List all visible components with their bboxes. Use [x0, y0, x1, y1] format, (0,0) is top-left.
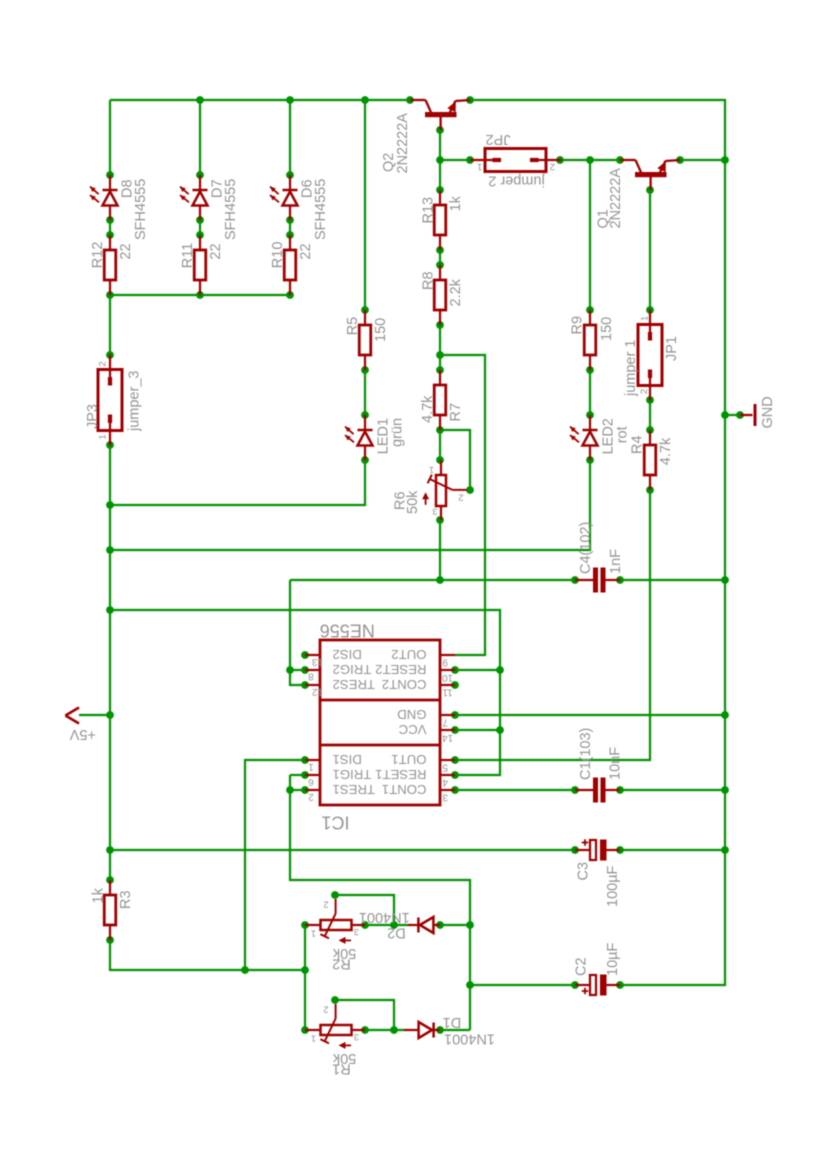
junction dot (560,160) — [556, 156, 564, 164]
IC1 designator — [321, 812, 349, 832]
svg-text:1nF: 1nF — [608, 549, 624, 574]
junction dot (650,400) — [646, 396, 654, 404]
junction dot (440,1030) — [436, 1026, 444, 1034]
label LED1 value gruen — [389, 418, 405, 447]
jumper JP2 — [470, 149, 561, 172]
junction dot (620,580) — [616, 576, 624, 584]
label R3 name — [118, 890, 134, 909]
label R5 name — [345, 317, 361, 336]
transistor Q1 — [620, 160, 680, 190]
wire C1 right to rail — [620, 789, 725, 791]
wire x290 riser to IC pins 8 12 — [290, 580, 305, 685]
junction dot (440,460) — [436, 456, 444, 464]
junction dot (440,370) — [436, 366, 444, 374]
wire +5V supply stub — [79, 714, 110, 716]
svg-text:10nF: 10nF — [608, 747, 624, 780]
label R1 value 50k — [332, 1050, 356, 1066]
svg-text:CONT2: CONT2 — [382, 677, 427, 692]
wire D8 LED to R12 — [109, 220, 111, 235]
label D2 name — [387, 924, 406, 940]
label C2 name — [574, 957, 590, 976]
junction dot (200,175) — [196, 171, 204, 179]
svg-text:CONT1: CONT1 — [382, 782, 427, 797]
junction dot (110,175) — [106, 171, 114, 179]
junction dot (394,925) — [390, 921, 398, 929]
wire row 610 VCC line — [110, 610, 500, 775]
wire pin 6 link — [290, 774, 305, 776]
junction dot (290,670) — [286, 666, 294, 674]
label Q2 value 2N2222A — [395, 113, 411, 174]
junction dot (590,310) — [586, 306, 594, 314]
wire pin 1 to x245 riser — [245, 760, 305, 970]
wire LED1 bottom to left rail — [110, 460, 365, 505]
wire Q1 base upper — [649, 190, 651, 310]
label R13 value 1k — [448, 195, 464, 211]
svg-text:11: 11 — [442, 686, 453, 697]
wire JP2 row right — [560, 159, 620, 161]
svg-text:1: 1 — [429, 464, 434, 475]
junction dot (245,970) — [241, 966, 249, 974]
label R11 value 22 — [208, 243, 224, 259]
label JP1 value jumper 1 — [623, 340, 639, 397]
svg-text:2.2k: 2.2k — [448, 278, 464, 306]
svg-text:1: 1 — [311, 1032, 316, 1043]
svg-text:2: 2 — [98, 361, 109, 366]
wire left rail upper — [109, 100, 111, 175]
junction dot (590,415) — [586, 411, 594, 419]
svg-text:1k: 1k — [91, 887, 107, 903]
wire R8 to node — [439, 325, 441, 355]
wire row 850 C3 left — [110, 849, 575, 851]
svg-text:12: 12 — [312, 686, 324, 697]
label D8 name — [120, 179, 136, 198]
svg-text:5: 5 — [442, 761, 448, 772]
junction dot (440,925) — [436, 921, 444, 929]
svg-text:DIS1: DIS1 — [333, 752, 362, 767]
junction dot (620,790) — [616, 786, 624, 794]
label R11 name — [180, 243, 196, 269]
wire x290 riser pins 6 2 down — [290, 775, 470, 1030]
junction dot (110,295) — [106, 291, 114, 299]
label GND — [760, 396, 776, 428]
svg-text:R11: R11 — [180, 243, 196, 269]
svg-text:3: 3 — [432, 505, 437, 516]
resistor R4 — [644, 430, 656, 490]
svg-text:1: 1 — [98, 434, 109, 439]
junction dot (200,100) — [196, 96, 204, 104]
IC IC1 NE556 body — [305, 640, 455, 805]
junction dot (440,190) — [436, 186, 444, 194]
svg-text:1N4001: 1N4001 — [359, 909, 410, 925]
junction dot (305,760) — [301, 756, 309, 764]
wire pin 7 GND row — [455, 714, 725, 716]
label R4 name — [630, 435, 646, 454]
label R2 value 50k — [332, 945, 356, 961]
label R9 value 150 — [599, 317, 615, 341]
svg-text:2: 2 — [458, 491, 463, 502]
label LED2 name — [601, 418, 617, 454]
label R2 name — [332, 956, 351, 972]
label R2 pin 3 — [354, 926, 359, 937]
wire node to R7 — [439, 355, 441, 370]
svg-text:GND: GND — [397, 707, 426, 722]
label R6 name — [393, 491, 409, 510]
svg-text:OUT2: OUT2 — [391, 647, 426, 662]
junction dot (110,355) — [106, 351, 114, 359]
wire R5 to LED1 — [364, 370, 366, 415]
trimmer R1 — [305, 1004, 365, 1049]
svg-text:NE556: NE556 — [320, 620, 375, 640]
transistor Q2 — [410, 100, 470, 130]
svg-text:R1: R1 — [332, 1061, 351, 1077]
wire pin 14 link — [455, 729, 500, 731]
junction dot (440,520) — [436, 516, 444, 524]
wire row 580 C4 right — [620, 579, 725, 581]
label R8 name — [421, 271, 437, 290]
junction dot (470,100) — [466, 96, 474, 104]
wire Q2 base down — [439, 130, 441, 190]
IC1 pin numbers — [308, 656, 453, 803]
wire GND stub — [725, 414, 740, 416]
svg-text:1N4001: 1N4001 — [444, 1030, 495, 1046]
label JP3 pin 2 — [98, 361, 109, 366]
junction dot (725,580) — [721, 576, 729, 584]
svg-text:OUT1: OUT1 — [391, 752, 426, 767]
junction dot (470,925) — [466, 921, 474, 929]
svg-text:RESET2: RESET2 — [375, 662, 426, 677]
LED LED2 — [570, 415, 598, 460]
svg-text:22: 22 — [298, 243, 314, 259]
label D8 value SFH4555 — [133, 179, 149, 240]
supply +5V arrow — [65, 708, 79, 724]
label R10 name — [270, 242, 286, 269]
label R6 pin 1 — [429, 464, 434, 475]
svg-text:SFH4555: SFH4555 — [223, 179, 239, 240]
wire Q1 emitter to rail — [680, 159, 725, 161]
junction dot (575,790) — [571, 786, 579, 794]
label D1 name — [443, 1014, 462, 1030]
svg-text:C1(103): C1(103) — [578, 728, 594, 780]
svg-text:22: 22 — [118, 243, 134, 259]
junction dot (500,670) — [496, 666, 504, 674]
junction dot (305,790) — [301, 786, 309, 794]
svg-text:C2: C2 — [574, 957, 590, 976]
junction dot (455,685) — [451, 681, 459, 689]
svg-text:1: 1 — [640, 316, 651, 321]
svg-text:VCC: VCC — [398, 722, 426, 737]
junction dot (440,250) — [436, 246, 444, 254]
label C1 value 10nF — [608, 747, 624, 780]
label D7 name — [210, 179, 226, 198]
junction dot (455,775) — [451, 771, 459, 779]
wire left rail JP3 to bottom — [109, 445, 111, 880]
resistor R12 — [104, 235, 116, 295]
junction dot (725,415) — [721, 411, 729, 419]
svg-text:7: 7 — [442, 716, 448, 727]
wire right GND rail — [620, 160, 725, 985]
svg-text:TRIG1: TRIG1 — [333, 767, 372, 782]
label +5V — [69, 726, 96, 742]
svg-text:R9: R9 — [570, 316, 586, 335]
svg-text:6: 6 — [308, 776, 314, 787]
label C3 value 100uF — [605, 865, 621, 907]
svg-text:R2: R2 — [332, 956, 351, 972]
wire R9 to LED2 — [589, 370, 591, 415]
wire R5 branch top — [364, 100, 366, 310]
svg-text:22: 22 — [208, 243, 224, 259]
junction dot (110,550) — [106, 546, 114, 554]
svg-text:1: 1 — [477, 161, 482, 172]
svg-text:jumper_3: jumper_3 — [127, 371, 143, 432]
junction dot (440,160) — [436, 156, 444, 164]
diode D2 — [408, 917, 440, 933]
label C4 name — [578, 522, 594, 574]
label LED1 name — [376, 418, 392, 454]
wire JP2 row left — [440, 159, 470, 161]
wire D7 branch top — [199, 100, 201, 175]
svg-text:1: 1 — [308, 761, 314, 772]
junction dot (290,175) — [286, 171, 294, 179]
junction dot (575,580) — [571, 576, 579, 584]
IC1 right pin names — [375, 647, 426, 797]
label R12 value 22 — [118, 243, 134, 259]
label R1 pin 1 — [311, 1032, 316, 1043]
junction dot (394,1030) — [390, 1026, 398, 1034]
wire D1 to x470 riser — [440, 1029, 470, 1031]
wire R1 pin3 to D1 — [365, 1029, 404, 1031]
junction dot (740,415) — [736, 411, 744, 419]
junction dot (365,370) — [361, 366, 369, 374]
junction dot (305,655) — [301, 651, 309, 659]
svg-text:R4: R4 — [630, 435, 646, 454]
resistor R11 — [194, 235, 206, 295]
junction dot (110,715) — [106, 711, 114, 719]
svg-text:GND: GND — [760, 396, 776, 428]
junction dot (590,370) — [586, 366, 594, 374]
label R10 value 22 — [298, 243, 314, 259]
label R1 name — [332, 1061, 351, 1077]
junction dot (725,790) — [721, 786, 729, 794]
svg-text:rot: rot — [615, 426, 631, 443]
wire D6 branch top — [289, 100, 291, 175]
label JP1 pin 2 — [639, 389, 650, 394]
label LED2 value rot — [615, 426, 631, 443]
wire left rail below R3 — [110, 940, 305, 970]
junction dot (200,235) — [196, 231, 204, 239]
label Q1 value 2N2222A — [608, 168, 624, 229]
junction dot (440,130) — [436, 126, 444, 134]
label JP1 name — [664, 336, 680, 361]
label R8 value 2.2k — [448, 278, 464, 306]
junction dot (725,850) — [721, 846, 729, 854]
svg-text:SFH4555: SFH4555 — [313, 179, 329, 240]
label R1 pin 3 — [354, 1031, 359, 1042]
LED D7 — [180, 175, 208, 220]
svg-text:2N2222A: 2N2222A — [395, 113, 411, 174]
junction dot (650,430) — [646, 426, 654, 434]
wire D6 LED to R10 — [289, 220, 291, 235]
wire R13 to R8 — [439, 250, 441, 265]
junction dot (365,100) — [361, 96, 369, 104]
LED D6 — [270, 175, 298, 220]
svg-text:2: 2 — [639, 389, 650, 394]
junction dot (650,310) — [646, 306, 654, 314]
junction dot (110,445) — [106, 441, 114, 449]
junction dot (470,985) — [466, 981, 474, 989]
wire pin 5 to Q1 base — [455, 490, 650, 760]
junction dot (305,925) — [301, 921, 309, 929]
svg-text:1k: 1k — [448, 195, 464, 211]
resistor R5 — [359, 310, 371, 370]
label R1 pin 2 — [323, 1003, 328, 1014]
label R7 name — [448, 403, 464, 422]
junction dot (440,265) — [436, 261, 444, 269]
label JP1 pin 1 — [640, 316, 651, 321]
wire R2 pin1 to R1 pin1 — [304, 925, 306, 1030]
junction dot (575,985) — [571, 981, 579, 989]
wire D7 LED to R11 — [199, 220, 201, 235]
junction dot (440,325) — [436, 321, 444, 329]
label Q2 name — [381, 153, 397, 172]
junction dot (335,895) — [331, 891, 339, 899]
junction dot (500,730) — [496, 726, 504, 734]
junction dot (455,715) — [451, 711, 459, 719]
label R7 value 4.7k — [420, 395, 436, 423]
svg-text:JP2: JP2 — [486, 131, 511, 147]
junction dot (305,685) — [301, 681, 309, 689]
label JP3 name — [85, 404, 101, 429]
capacitor C2 — [575, 975, 620, 996]
junction dot (110,880) — [106, 876, 114, 884]
svg-text:R7: R7 — [448, 403, 464, 422]
junction dot (110,850) — [106, 846, 114, 854]
svg-text:R5: R5 — [345, 317, 361, 336]
wire LED2 bottom row 550 to left rail — [110, 460, 590, 550]
label R6 pin 2 — [458, 491, 463, 502]
wire left rail to JP3 — [109, 295, 111, 355]
label D1 value 1N4001 — [444, 1030, 495, 1046]
label JP3 value jumper_3 — [127, 371, 143, 432]
junction dot (590,460) — [586, 456, 594, 464]
svg-text:150: 150 — [373, 318, 389, 342]
label R6 value 50k — [405, 490, 421, 514]
svg-text:2: 2 — [308, 791, 314, 802]
junction dot (620,850) — [616, 846, 624, 854]
svg-text:TRES1: TRES1 — [333, 782, 376, 797]
wire +5V rail top — [110, 99, 410, 101]
wire top rail right of Q2 — [470, 100, 725, 160]
junction dot (365,310) — [361, 306, 369, 314]
resistor R7 — [434, 370, 446, 430]
wire R2 pin3 to D2 — [365, 924, 408, 926]
wire R9 branch top — [589, 160, 591, 310]
junction dot (365,460) — [361, 456, 369, 464]
label Q1 name — [596, 209, 612, 228]
svg-text:4.7k: 4.7k — [420, 395, 436, 423]
label R2 pin 2 — [323, 898, 328, 909]
junction dot (110,235) — [106, 231, 114, 239]
svg-text:TRIG2: TRIG2 — [333, 662, 372, 677]
junction dot (110,220) — [106, 216, 114, 224]
wire node R8R7 to pin9 riser — [440, 355, 485, 655]
wire JP1 to R4 — [649, 400, 651, 430]
label JP2 value jumper 2 — [488, 172, 545, 188]
svg-text:jumper 2: jumper 2 — [488, 172, 545, 188]
svg-text:R10: R10 — [270, 242, 286, 269]
junction dot (440,355) — [436, 351, 444, 359]
junction dot (410,100) — [406, 96, 414, 104]
svg-text:2: 2 — [323, 898, 328, 909]
label R12 name — [90, 242, 106, 269]
junction dot (575,850) — [571, 846, 579, 854]
trimmer R2 — [305, 899, 365, 944]
svg-text:R3: R3 — [118, 890, 134, 909]
junction dot (290,235) — [286, 231, 294, 239]
wire R2 wiper link — [335, 895, 394, 925]
label JP3 pin 1 — [98, 434, 109, 439]
svg-text:1: 1 — [311, 927, 316, 938]
wire C3 right to rail — [620, 849, 725, 851]
junction dot (650,490) — [646, 486, 654, 494]
resistor R3 — [104, 880, 116, 940]
label C4 value 1nF — [608, 549, 624, 574]
svg-text:14: 14 — [442, 732, 454, 743]
svg-text:3: 3 — [354, 1031, 359, 1042]
svg-text:R13: R13 — [421, 197, 437, 224]
LED LED1 — [345, 415, 373, 460]
junction dot (200,220) — [196, 216, 204, 224]
junction dot (290,295) — [286, 291, 294, 299]
junction dot (680,160) — [676, 156, 684, 164]
junction dot (305,1030) — [301, 1026, 309, 1034]
junction dot (365,925) — [361, 921, 369, 929]
svg-text:TRES2: TRES2 — [333, 677, 376, 692]
label D7 value SFH4555 — [223, 179, 239, 240]
junction dot (650,190) — [646, 186, 654, 194]
svg-text:2N2222A: 2N2222A — [608, 168, 624, 229]
label JP2 name — [486, 131, 511, 147]
label D2 value 1N4001 — [359, 909, 410, 925]
junction dot (440,580) — [436, 576, 444, 584]
label R5 value 150 — [373, 318, 389, 342]
svg-text:jumper 1: jumper 1 — [623, 340, 639, 397]
junction dot (455,670) — [451, 666, 459, 674]
capacitor C4 — [575, 568, 620, 593]
label C3 name — [576, 862, 592, 881]
svg-text:C4(102): C4(102) — [578, 522, 594, 574]
svg-text:+5V: +5V — [69, 726, 96, 742]
svg-text:50k: 50k — [405, 490, 421, 514]
svg-text:RESET1: RESET1 — [375, 767, 426, 782]
junction dot (290,220) — [286, 216, 294, 224]
svg-text:2: 2 — [550, 161, 555, 172]
junction dot (335,1000) — [331, 996, 339, 1004]
wire row 580 C4 left — [290, 579, 575, 581]
LED D8 — [90, 175, 118, 220]
wire C2 row left — [470, 984, 575, 986]
label R3 value 1k — [91, 887, 107, 903]
wire pin 2 link — [290, 789, 305, 791]
svg-text:13: 13 — [312, 656, 324, 667]
svg-text:DIS2: DIS2 — [333, 647, 362, 662]
IC1 name NE556 — [320, 620, 375, 640]
svg-text:C3: C3 — [576, 862, 592, 881]
svg-text:9: 9 — [442, 656, 448, 667]
junction dot (470,160) — [466, 156, 474, 164]
junction dot (110,940) — [106, 936, 114, 944]
jumper JP1 — [638, 310, 662, 401]
svg-text:IC1: IC1 — [321, 812, 349, 832]
